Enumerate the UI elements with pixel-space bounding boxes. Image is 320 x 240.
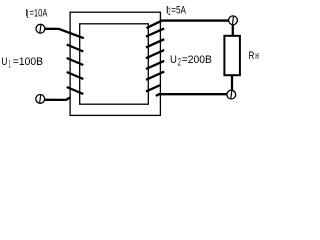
svg-text:U: U bbox=[1, 56, 7, 68]
wire W5: X3 down to resistor top bbox=[232, 24, 234, 36]
svg-text:1: 1 bbox=[9, 58, 11, 70]
svg-text:=200В: =200В bbox=[182, 54, 212, 66]
svg-text:=10A: =10A bbox=[30, 7, 48, 19]
wire W2: X2 to primary winding bottom lead bbox=[45, 97, 71, 100]
transformer core inner rectangle bbox=[80, 24, 149, 104]
primary winding w1 turn 2 bbox=[67, 45, 84, 52]
wire W1: X1 to primary winding top lead bbox=[45, 29, 84, 38]
primary winding w1 turn 3 bbox=[67, 58, 84, 65]
svg-text:=5A: =5A bbox=[171, 4, 186, 16]
transformer core outer rectangle bbox=[70, 12, 160, 115]
secondary winding w2 turn 3 bbox=[146, 39, 164, 47]
secondary winding w2 turn 5 bbox=[146, 61, 164, 69]
secondary winding w2 lead + wire W3 to X3 bbox=[147, 21, 229, 29]
label I2=5A bbox=[166, 4, 187, 18]
svg-text:R: R bbox=[249, 50, 255, 62]
wire W4: secondary bottom lead to X4 bbox=[156, 94, 227, 96]
label RH (load resistor designator) bbox=[249, 50, 259, 62]
terminal X4 (bottom right clamp) bbox=[227, 90, 236, 99]
svg-text:2: 2 bbox=[168, 6, 170, 18]
secondary winding w2 turn 4 bbox=[146, 50, 164, 58]
wire W6: resistor bottom down to X4 bbox=[231, 75, 233, 90]
svg-text:=100В: =100В bbox=[13, 56, 43, 68]
label I1=10A bbox=[25, 7, 48, 21]
primary winding w1 turn 4 bbox=[67, 72, 84, 79]
terminal X1 (top left clamp) bbox=[36, 24, 45, 33]
primary winding w1 turn 5 bbox=[67, 87, 84, 94]
resistor RH body bbox=[224, 36, 240, 75]
label U2=200B bbox=[170, 54, 212, 68]
svg-text:н: н bbox=[255, 50, 259, 62]
svg-text:U: U bbox=[170, 54, 177, 66]
terminal X3 (top right clamp) bbox=[229, 16, 238, 25]
secondary winding w2 turn 6 bbox=[146, 72, 164, 80]
svg-text:2: 2 bbox=[178, 56, 181, 68]
secondary winding w2 turn 2 bbox=[146, 28, 164, 36]
terminal X2 (bottom left clamp) bbox=[36, 95, 45, 104]
label U1=100B bbox=[1, 56, 43, 70]
secondary winding w2 turn 7 bbox=[146, 85, 160, 91]
svg-text:1: 1 bbox=[27, 9, 29, 21]
